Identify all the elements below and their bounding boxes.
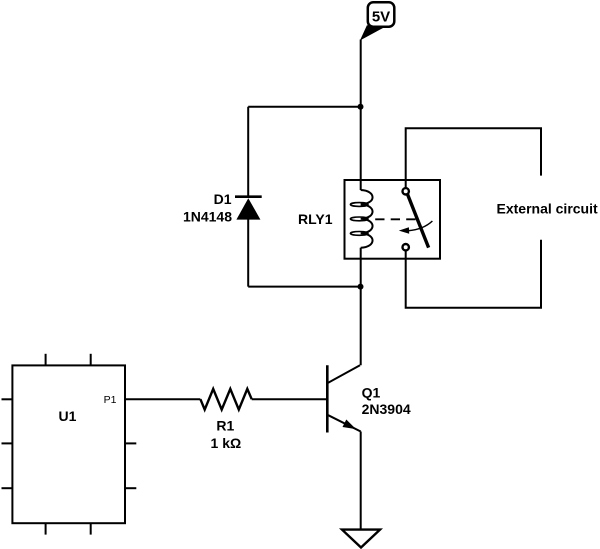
wire: 5V flag down to relay coil top (360, 40, 362, 191)
relay switch blade (408, 194, 429, 247)
svg-text:Q1: Q1 (362, 384, 381, 400)
wire: U1 pin P1 to resistor (125, 398, 200, 400)
svg-text:U1: U1 (59, 408, 77, 424)
power net flag 5V (361, 2, 395, 39)
pin stub bottom 1 (45, 523, 47, 534)
wire: diode branch bottom horizontal (248, 286, 361, 288)
pin stub right 1 (125, 442, 136, 444)
relay RLY1 body box (345, 180, 441, 259)
pin stub top 2 (90, 354, 92, 366)
transistor Q1 (327, 365, 360, 432)
pin stub left 2 (2, 442, 13, 444)
IC U1 body box (12, 365, 125, 523)
svg-text:1 kΩ: 1 kΩ (211, 435, 242, 451)
diode D1 symbol (235, 197, 262, 220)
pin stub top 1 (45, 354, 47, 366)
pin stub left 1 (2, 398, 13, 400)
resistor R1 (200, 389, 251, 410)
relay internal dashed actuation line (375, 218, 416, 220)
wire: switch top to external circuit top (406, 128, 541, 187)
svg-text:R1: R1 (216, 418, 234, 434)
svg-text:P1: P1 (104, 394, 117, 406)
junction node: anode rail top (358, 104, 364, 110)
pin stub right 2 (125, 487, 136, 489)
pin stub left 3 (2, 487, 13, 489)
svg-text:RLY1: RLY1 (298, 211, 333, 227)
svg-text:External circuit: External circuit (497, 200, 598, 216)
wire: transistor emitter to ground (360, 432, 362, 530)
wire: base wire from resistor to transistor (252, 398, 326, 400)
svg-text:D1: D1 (214, 191, 232, 207)
wire: diode branch left vertical (anode to top) (247, 107, 249, 197)
wire: switch bottom to external circuit bottom (406, 240, 541, 308)
relay contact bottom (403, 244, 409, 250)
wire: relay coil bottom to transistor collector (360, 248, 362, 366)
svg-text:2N3904: 2N3904 (362, 401, 411, 417)
svg-text:5V: 5V (372, 8, 390, 25)
svg-text:1N4148: 1N4148 (183, 209, 232, 225)
wire: diode bottom vertical (247, 220, 249, 287)
junction node: rail bottom (358, 284, 364, 290)
pin stub bottom 2 (90, 523, 92, 534)
relay switch arc arrow (399, 221, 433, 234)
relay coil (350, 190, 372, 248)
ground symbol (342, 530, 380, 548)
relay contact top (403, 188, 409, 194)
U1 pin stubs (2, 354, 137, 535)
wire: diode branch top horizontal (248, 106, 361, 108)
